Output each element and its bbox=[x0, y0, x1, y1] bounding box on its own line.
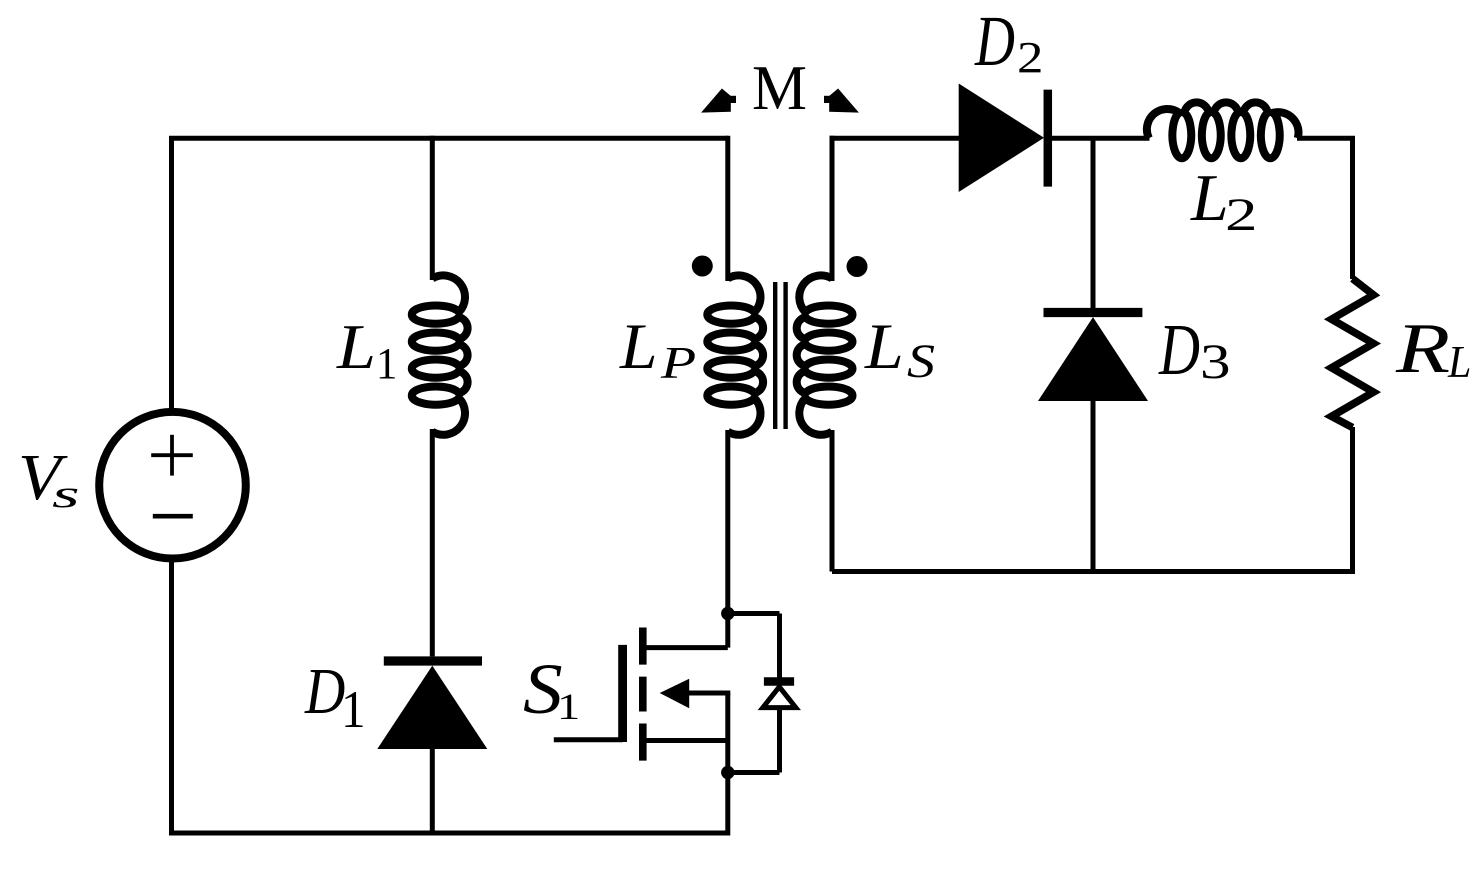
mosfet S1 channel bar drain bbox=[639, 628, 647, 665]
diode D2 cathode bar bbox=[1044, 90, 1053, 187]
wire body diode bottom to source node bbox=[728, 770, 780, 775]
wire primary bottom to MOSFET drain node bbox=[725, 430, 730, 614]
label L1 bbox=[337, 315, 376, 379]
mosfet S1 gate lead bbox=[554, 737, 623, 742]
label D1 bbox=[305, 660, 345, 725]
wire body diode bottom vertical bbox=[777, 709, 782, 773]
diode D3 cathode bar bbox=[1044, 308, 1143, 317]
transformer secondary winding Ls coil bbox=[797, 275, 853, 434]
wire D3 bottom (D3 down to bottom junction) bbox=[1091, 401, 1096, 572]
label S1 (switch) bbox=[523, 654, 563, 726]
wire top-left horizontal (Vs top node to transformer primary) bbox=[169, 136, 728, 141]
label D2 bbox=[975, 6, 1015, 78]
wire source node to bottom wire bbox=[725, 773, 730, 836]
transformer core lines bbox=[775, 282, 785, 429]
label M (mutual inductance) bbox=[752, 56, 807, 120]
mosfet S1 source lead bbox=[644, 738, 728, 743]
wire source vertical (bulk line to source node) bbox=[725, 693, 730, 775]
diode D3 triangle bbox=[1038, 317, 1148, 401]
voltage source Vs circle bbox=[99, 412, 246, 559]
transformer dot primary bbox=[692, 256, 713, 277]
wire right rail lower (RL down to bottom-right corner) bbox=[1350, 427, 1355, 574]
wire body diode top vertical bbox=[777, 614, 782, 682]
wire right-loop bottom horizontal bbox=[832, 569, 1355, 574]
wire secondary bottom to right-loop bottom bbox=[830, 430, 835, 572]
diode D1 cathode bar bbox=[384, 656, 482, 665]
wire bottom-left horizontal (Vs bottom to MOSFET source) bbox=[169, 831, 728, 836]
Vs minus sign bbox=[153, 514, 193, 519]
junction dot drain node bbox=[721, 607, 734, 620]
mosfet S1 drain lead bbox=[644, 645, 728, 650]
transformer primary winding Lp coil bbox=[707, 275, 763, 434]
inductor L2 coil bbox=[1147, 102, 1299, 158]
wire drain node to drain lead bbox=[725, 611, 730, 648]
wire L2 to top-right corner bbox=[1297, 136, 1355, 141]
diode D1 triangle bbox=[377, 666, 487, 749]
wire left rail lower (Vs - down to bottom node) bbox=[169, 560, 174, 834]
wire D2 to L2 bbox=[1052, 136, 1150, 141]
mutual coupling arrowhead left bbox=[701, 89, 731, 113]
junction dot source node bbox=[721, 766, 734, 779]
label LP (primary) bbox=[620, 315, 657, 379]
wire L1 top (top wire down to L1) bbox=[430, 136, 435, 280]
body diode triangle (outline) bbox=[763, 687, 796, 708]
wire L1 bottom to D1 bbox=[430, 429, 435, 656]
label D3 bbox=[1159, 314, 1200, 387]
transformer dot secondary bbox=[847, 256, 868, 277]
mosfet S1 bulk arrow line bbox=[686, 691, 730, 696]
mosfet S1 bulk arrowhead bbox=[660, 679, 690, 709]
label Vs (source) bbox=[18, 446, 61, 512]
mosfet S1 channel bar body bbox=[639, 677, 647, 712]
inductor L1 coil bbox=[412, 275, 468, 434]
diode D2 triangle bbox=[959, 84, 1044, 193]
wire drain node to body diode top bbox=[728, 611, 780, 616]
wire D3 top (junction down to D3) bbox=[1091, 138, 1096, 308]
wire primary top (top wire down to Lp) bbox=[725, 136, 730, 281]
label LS (secondary) bbox=[865, 315, 904, 379]
label L2 bbox=[1191, 165, 1229, 232]
body diode cathode bar bbox=[764, 677, 794, 685]
wire secondary top to D2 bbox=[830, 136, 961, 141]
Vs plus sign bbox=[151, 435, 193, 476]
resistor RL zigzag bbox=[1332, 279, 1374, 428]
mosfet S1 gate bar bbox=[618, 645, 627, 742]
mutual coupling arrowhead right bbox=[829, 89, 859, 113]
wire secondary top (Ls up to top wire) bbox=[830, 136, 835, 281]
wire D1 to bottom wire bbox=[430, 749, 435, 833]
mosfet S1 channel bar source bbox=[639, 724, 647, 761]
wire right rail upper (corner down to RL) bbox=[1350, 138, 1355, 279]
label RL (load) bbox=[1396, 313, 1450, 384]
wire left rail upper (top node down to Vs +) bbox=[169, 138, 174, 411]
